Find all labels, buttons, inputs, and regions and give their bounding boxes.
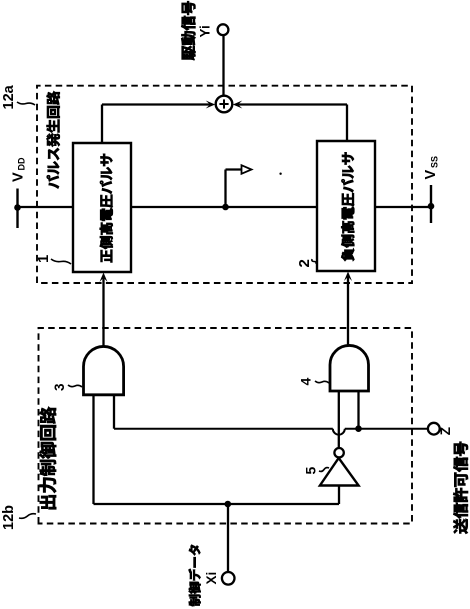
svg-text:12b: 12b [1, 505, 17, 530]
leader 2 [312, 259, 316, 264]
wire block2 output [346, 105, 348, 142]
VSS terminal bar [430, 185, 432, 223]
terminal Z [428, 423, 440, 435]
terminal Yi [218, 24, 229, 35]
arrowhead into block2 [344, 272, 352, 282]
svg-text:SS: SS [430, 156, 440, 168]
AND gate 3 [84, 346, 124, 394]
svg-text:1: 1 [35, 255, 52, 263]
wire into inverter input [338, 486, 340, 505]
wire into gate3 input A [92, 395, 94, 504]
AND gate 4 [330, 345, 369, 391]
leader 12b [19, 514, 36, 519]
svg-text:2: 2 [296, 259, 313, 267]
terminal Xi [222, 572, 235, 585]
wire Z vertical with hop [114, 428, 333, 430]
svg-text:Yi: Yi [198, 25, 213, 37]
svg-text:V: V [11, 172, 27, 182]
node Z to gate4 [355, 425, 362, 432]
svg-text:V: V [423, 170, 439, 180]
wire block1 output [101, 105, 103, 144]
leader 12a [17, 102, 35, 105]
node Xi junction [225, 501, 232, 508]
arrowhead into summing node bottom [233, 101, 243, 109]
wire output tap [224, 170, 226, 208]
svg-text:DD: DD [17, 157, 27, 170]
svg-text:12a: 12a [1, 84, 17, 109]
inverter 5 bubble [334, 448, 343, 457]
wire Xi to junction [227, 504, 229, 572]
wire block2 to VSS [375, 206, 431, 208]
leader 5 [319, 468, 329, 472]
leader 3 [68, 385, 82, 387]
wire rail block1-block2 [131, 206, 317, 208]
text: negative-side HV pulser [341, 152, 354, 261]
VDD terminal bar [16, 189, 18, 229]
block 2 negative-side high-voltage pulser [317, 141, 375, 271]
text: positive-side HV pulser [100, 154, 113, 263]
arrowhead into summing node top [206, 101, 216, 109]
VDD junction dot [14, 204, 21, 211]
arrowhead into block1 [100, 273, 108, 283]
leader 4 [315, 381, 329, 383]
label: transmission enable signal [453, 442, 468, 534]
wire gate4 output to block2 [347, 277, 349, 346]
leader 1 [51, 259, 71, 264]
label: control data [189, 545, 201, 606]
caption: pulse generation circuit [47, 91, 60, 188]
caption: output control circuit [40, 407, 57, 509]
svg-text:4: 4 [298, 378, 314, 386]
svg-text:5: 5 [303, 467, 319, 475]
wire Xi junction down to inverter [228, 503, 339, 505]
wire gate3 output to block1 [102, 278, 104, 347]
inverter 5 triangle [320, 458, 359, 486]
VSS junction dot [428, 203, 435, 210]
wire Z to gate3 input B [113, 395, 115, 429]
dashed box 12b output-control circuit [39, 328, 413, 524]
wire Xi junction up to gate3 input A [94, 503, 229, 505]
speck [279, 173, 281, 175]
svg-text:3: 3 [52, 383, 67, 391]
node rail junction [222, 204, 229, 211]
open arrow output tap [242, 165, 252, 174]
dashed box 12a pulse-generation circuit [37, 86, 412, 283]
label: drive signal [181, 1, 195, 60]
svg-text:Z: Z [438, 427, 453, 435]
summing node (+) [216, 96, 233, 113]
wire inverter output to gate4 input A [338, 391, 340, 448]
wire VDD to block1 [18, 206, 74, 208]
wire Z to gate4 input B [357, 391, 359, 429]
wire summing node to Yi [222, 35, 224, 96]
block 1 positive-side high-voltage pulser [73, 143, 131, 272]
svg-text:Xi: Xi [204, 572, 219, 585]
